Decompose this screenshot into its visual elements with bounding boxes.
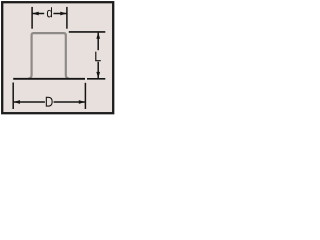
dimension L : line lower segment (97, 62, 99, 78)
dimension L : top extension line (69, 31, 106, 33)
dimension D : left extension tick (12, 83, 14, 110)
dimension D : line right segment (54, 101, 85, 103)
dimension d : left arrowhead (32, 12, 38, 16)
dimension L : top arrowhead (96, 32, 100, 38)
dimension d : line right segment (53, 13, 66, 15)
dimension d : left extension tick (31, 7, 33, 29)
dimension L : bottom arrowhead (96, 72, 100, 78)
dimension D : left arrowhead (14, 100, 20, 104)
dimension D : label "D" (46, 97, 53, 107)
dimension L : label "L" (95, 52, 101, 62)
base surface line (13, 78, 85, 80)
dimension L : bottom extension line (87, 78, 105, 80)
page background (0, 0, 117, 117)
dimension D : right extension tick (84, 83, 86, 109)
framed panel (2, 2, 113, 113)
dimension D : right arrowhead (79, 100, 85, 104)
dimension d : label "d" (47, 7, 52, 17)
boss profile (grey outline with base fillets) (28, 33, 69, 78)
dimension D : line left segment (14, 101, 45, 103)
dimension d : line left segment (33, 13, 45, 15)
dimension d : right arrowhead (60, 12, 66, 16)
dimension d : right extension tick (66, 7, 68, 29)
dimension L : line upper segment (97, 33, 99, 51)
